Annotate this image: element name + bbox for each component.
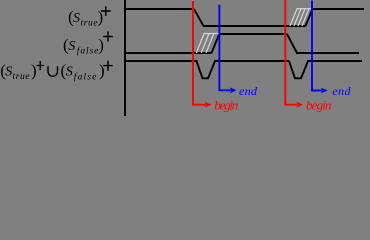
svg-text:true: true [13,72,30,82]
end marker line (event 1, blue) [219,5,230,91]
svg-text:S: S [68,39,75,54]
row label (S_true)+ ∪ (S_false)+ [0,61,113,83]
end arrowhead (event 2) [321,88,328,94]
signal (S_false)+ high segment [220,33,288,35]
union signal dip at event 2 and final high segment [289,61,362,78]
begin arrowhead (event 2) [296,102,303,108]
signal (S_false)+ final low segment [296,52,359,54]
signal (S_false)+ falling edge at event 2 [287,34,297,53]
svg-text:S: S [66,65,73,80]
axis (vertical time-zero line) [124,0,126,116]
signal (S_true)+ falling edge at event 1 [194,9,204,26]
svg-text:false: false [77,46,99,57]
begin marker line (event 2, red) [285,0,297,105]
svg-text:S: S [5,65,12,80]
signal (S_true)+ low segment [203,25,306,27]
svg-text:false: false [74,72,97,83]
svg-text:end: end [239,84,258,98]
end marker line (event 2, blue) [312,1,322,91]
signal (S_true)+ rise uncertainty hatch at event 2 [290,9,312,26]
row label (S_false)+ [63,31,113,56]
svg-text:end: end [332,84,351,98]
end arrowhead (event 1) [230,87,237,93]
svg-text:begin: begin [214,97,238,112]
signal (S_true)+ waveform: high segment [125,8,194,10]
svg-text:): ) [31,61,37,80]
begin arrowhead (event 1) [205,102,212,108]
svg-text:begin: begin [306,97,332,112]
svg-text:S: S [73,11,80,26]
signal (S_true)+ latest rising edge (black) ending at blue end line [306,9,313,26]
signal (S_true)+ final high segment [312,8,364,10]
row label (S_true)+ [68,6,111,28]
signal (S_false)+ latest rising edge (black) ending at blue end line [212,34,220,54]
union signal (S_true)+ ∪ (S_false)+ waveform with dip at event 1 [125,61,289,78]
signal (S_false)+ waveform: low segment [125,52,212,54]
svg-text:): ) [99,61,105,80]
svg-text:): ) [98,36,104,55]
svg-text:true: true [81,19,98,29]
union symbol [48,66,58,76]
signal (S_false)+ rise uncertainty hatch at event 1 [196,34,219,54]
begin marker line (event 1, red) [193,1,206,105]
